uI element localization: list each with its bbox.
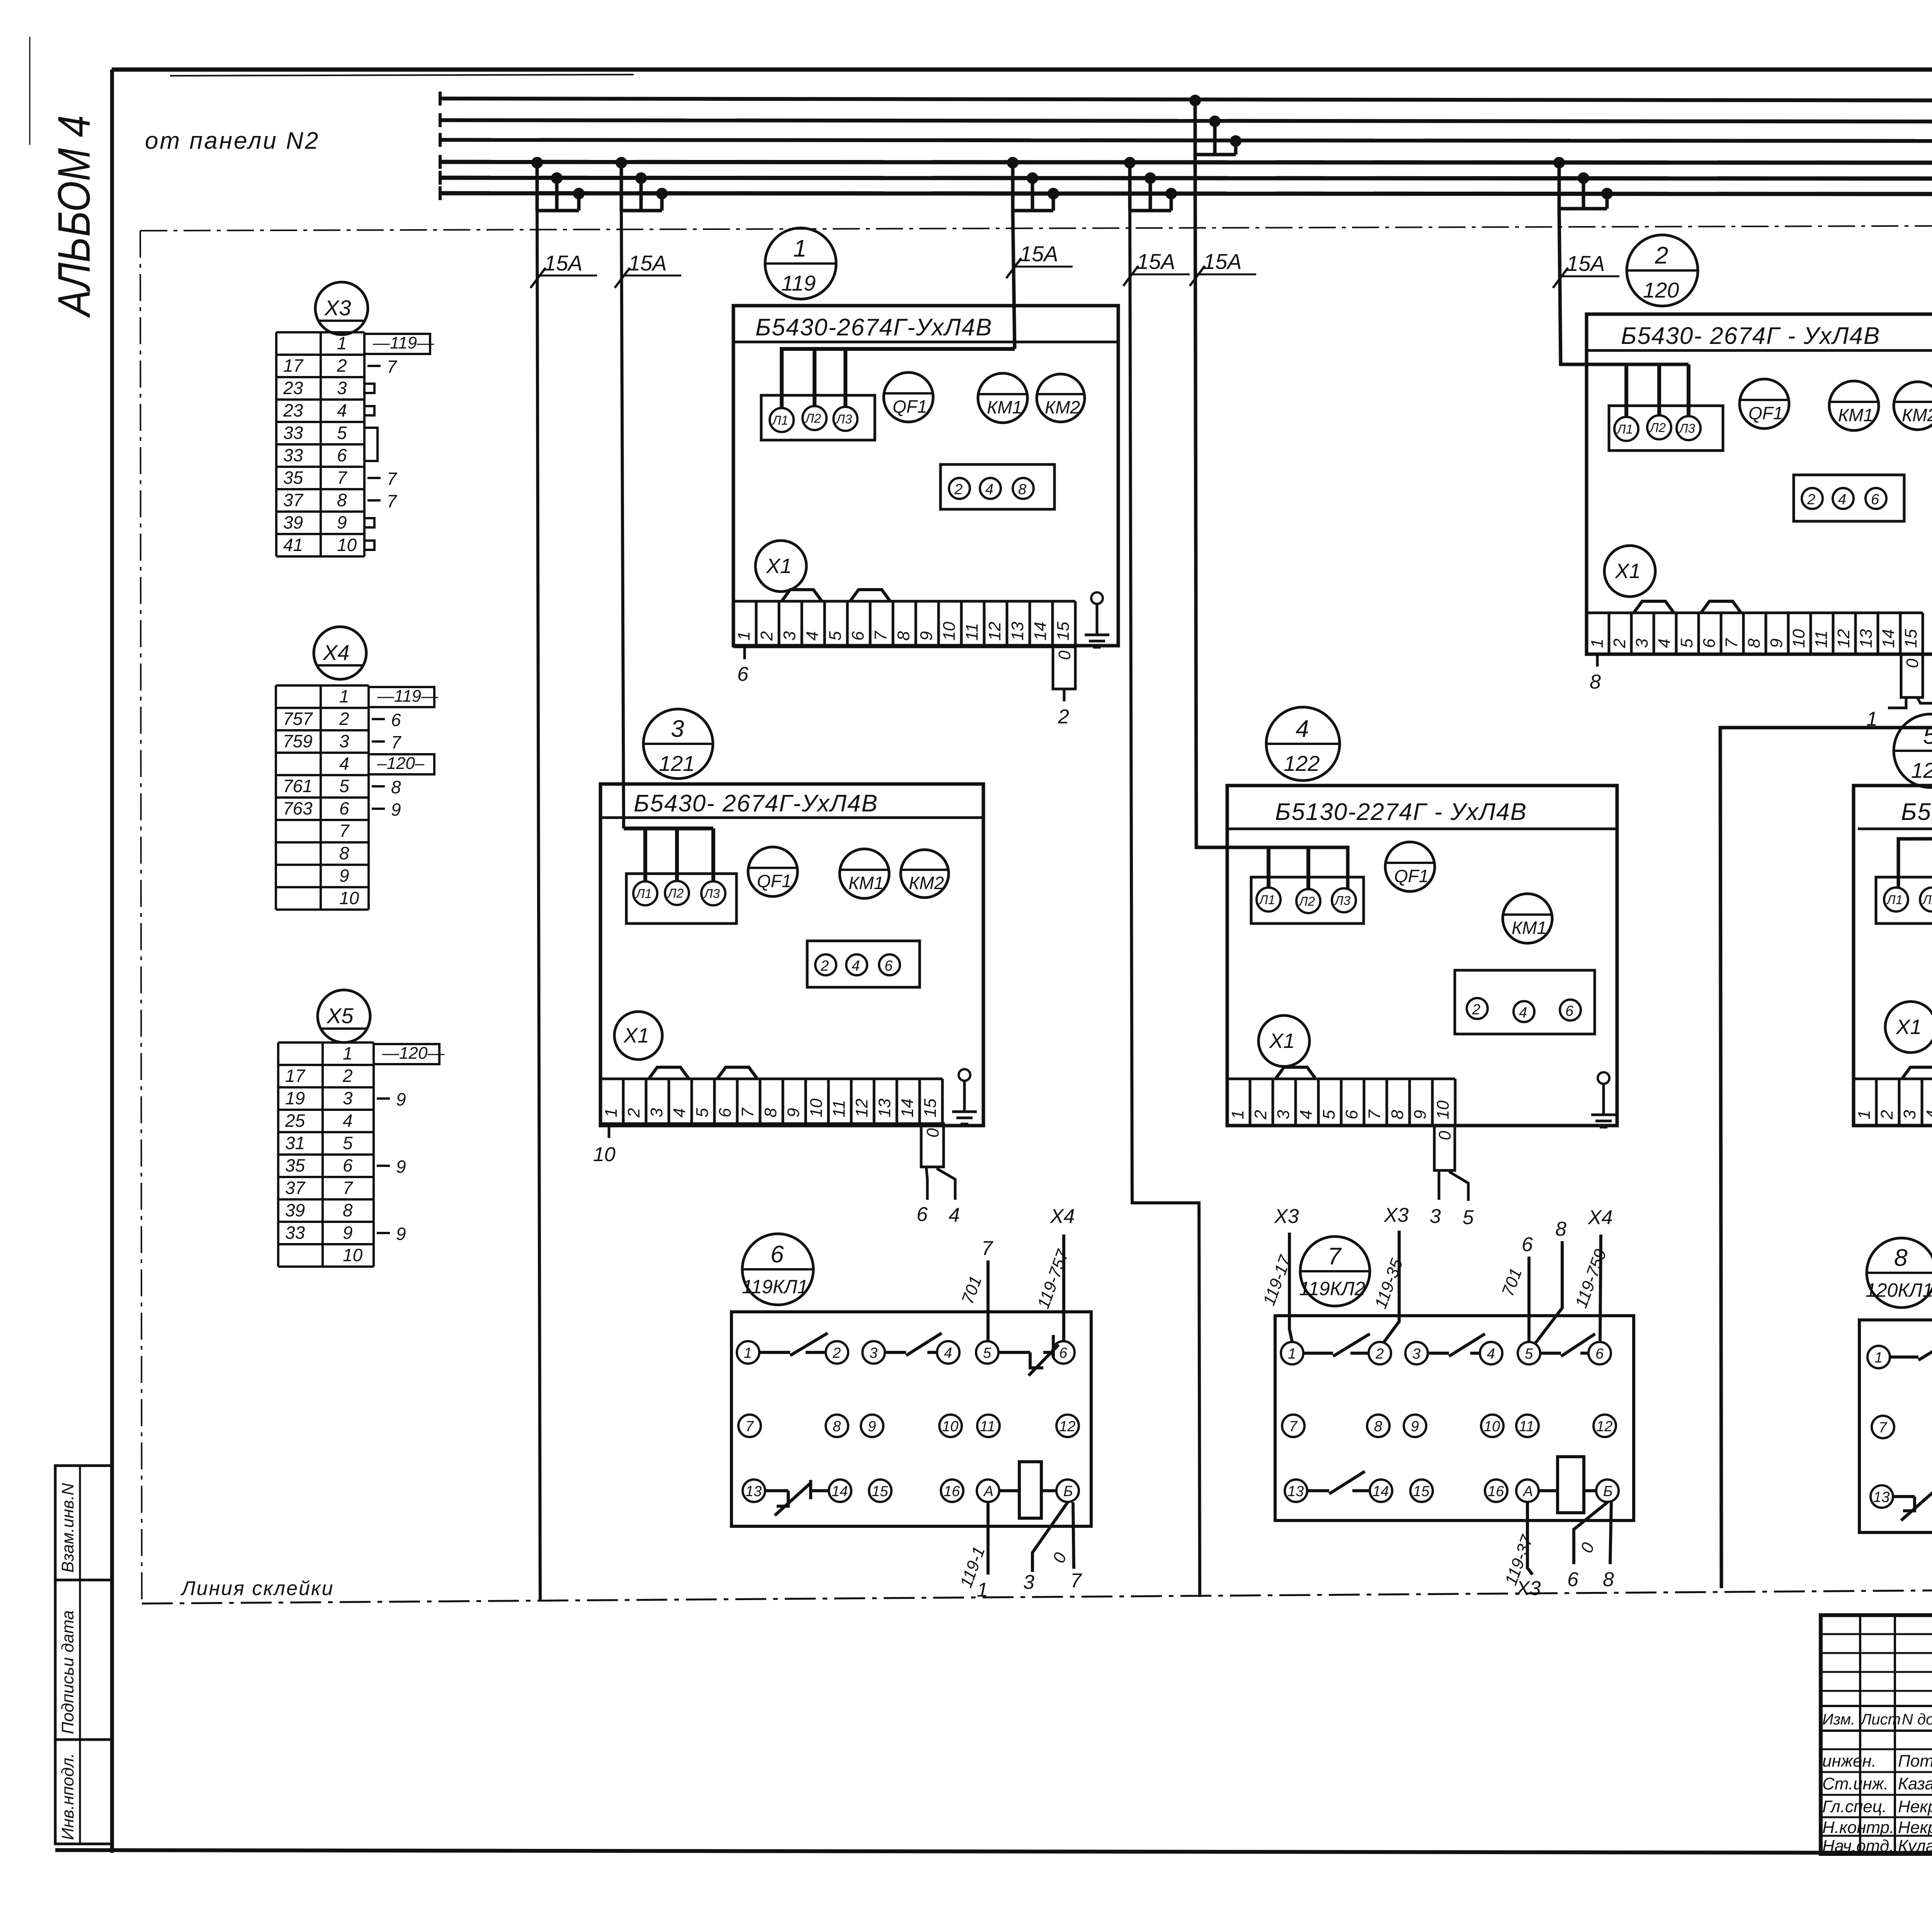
svg-text:4: 4 bbox=[1838, 492, 1846, 508]
svg-text:КМ1: КМ1 bbox=[1838, 405, 1873, 425]
svg-text:X4: X4 bbox=[322, 640, 350, 665]
svg-text:1: 1 bbox=[1855, 1110, 1874, 1119]
relay block K8 body bbox=[1859, 1320, 1932, 1532]
svg-text:10: 10 bbox=[337, 535, 357, 555]
svg-text:X1: X1 bbox=[623, 1024, 649, 1047]
svg-text:7: 7 bbox=[981, 1237, 993, 1260]
svg-text:8: 8 bbox=[1555, 1218, 1566, 1240]
svg-text:Л3: Л3 bbox=[703, 886, 720, 901]
lamp Л1 bbox=[770, 408, 794, 432]
wire 119-37 from pin A bbox=[1527, 1502, 1532, 1575]
svg-text:6: 6 bbox=[917, 1203, 928, 1226]
svg-text:КМ2: КМ2 bbox=[909, 873, 944, 893]
relay pin 6 bbox=[1052, 1341, 1075, 1364]
relay pin 14 bbox=[829, 1480, 851, 1502]
lamp Л3 bbox=[1677, 416, 1701, 440]
frame bottom line bbox=[55, 1850, 1932, 1854]
svg-text:2: 2 bbox=[1472, 1002, 1480, 1018]
svg-text:КМ1: КМ1 bbox=[1512, 918, 1547, 938]
lamp box bbox=[1251, 877, 1364, 923]
ground symbol bbox=[1085, 592, 1109, 647]
svg-text:Л2: Л2 bbox=[1922, 893, 1932, 907]
svg-text:А: А bbox=[1522, 1483, 1533, 1500]
fuse 15A on T3 bbox=[1006, 241, 1073, 278]
lamp Л3 bbox=[1332, 888, 1356, 912]
tap T6 staircase on L4 L5 L6 bbox=[1553, 157, 1613, 209]
svg-text:6: 6 bbox=[391, 710, 401, 730]
wire from tap T7 down left and down to splice line bbox=[1720, 214, 1932, 1588]
svg-text:—119—: —119— bbox=[377, 687, 439, 706]
svg-text:15А: 15А bbox=[628, 251, 667, 275]
svg-text:15: 15 bbox=[872, 1483, 888, 1500]
svg-text:12: 12 bbox=[1834, 629, 1853, 648]
svg-text:4: 4 bbox=[1655, 639, 1674, 648]
relay pin 11 bbox=[1516, 1415, 1539, 1437]
lamp Л1 bbox=[1257, 888, 1281, 912]
svg-text:13: 13 bbox=[1873, 1489, 1889, 1505]
device block A5 body bbox=[1854, 786, 1932, 1126]
svg-text:0: 0 bbox=[1055, 650, 1074, 660]
svg-text:4: 4 bbox=[1519, 1005, 1527, 1021]
contact 5-6 timed bbox=[998, 1335, 1059, 1376]
svg-text:Инв.нподл.: Инв.нподл. bbox=[58, 1753, 77, 1840]
svg-text:8: 8 bbox=[1388, 1110, 1407, 1119]
bus line L4 bbox=[440, 162, 1932, 163]
bus line L3 bbox=[440, 140, 1932, 141]
svg-text:7: 7 bbox=[387, 469, 397, 489]
svg-text:0: 0 bbox=[1435, 1131, 1454, 1140]
svg-text:7: 7 bbox=[337, 468, 347, 488]
svg-text:41: 41 bbox=[283, 535, 303, 555]
svg-text:4: 4 bbox=[337, 400, 347, 420]
svg-text:9: 9 bbox=[1767, 639, 1786, 648]
wire lamp drop A1 L2 bbox=[813, 349, 816, 406]
connector X1 circle bbox=[614, 1012, 662, 1060]
device circle КМ2 bbox=[1037, 374, 1085, 422]
jumper bump bbox=[1902, 1067, 1932, 1079]
tap T4 staircase on L4 L5 L6 bbox=[1124, 157, 1177, 211]
svg-text:0: 0 bbox=[1903, 658, 1922, 668]
svg-text:Л1: Л1 bbox=[1616, 422, 1633, 436]
svg-text:4: 4 bbox=[1297, 1110, 1316, 1119]
svg-text:39: 39 bbox=[285, 1200, 305, 1220]
svg-text:1: 1 bbox=[1288, 1346, 1296, 1362]
svg-text:7: 7 bbox=[343, 1178, 353, 1198]
svg-text:X3: X3 bbox=[1274, 1205, 1299, 1228]
svg-text:2: 2 bbox=[1058, 706, 1069, 728]
bus line L5 bbox=[440, 178, 1932, 179]
sheet outer left scan edge bbox=[29, 37, 31, 145]
svg-text:7: 7 bbox=[1722, 638, 1741, 648]
svg-text:Л1: Л1 bbox=[1886, 893, 1903, 907]
svg-text:4: 4 bbox=[949, 1204, 960, 1226]
svg-text:16: 16 bbox=[1488, 1483, 1504, 1500]
svg-text:QF1: QF1 bbox=[1394, 866, 1429, 886]
svg-text:Нач.отд.: Нач.отд. bbox=[1822, 1837, 1894, 1855]
connector table X3 bbox=[276, 332, 434, 556]
svg-text:от панели N2: от панели N2 bbox=[145, 128, 320, 154]
relay pin 16 bbox=[1485, 1480, 1507, 1502]
svg-text:15А: 15А bbox=[544, 251, 583, 275]
relay pin 8 bbox=[1367, 1415, 1389, 1437]
relay pin 15 bbox=[1410, 1480, 1433, 1502]
svg-text:15А: 15А bbox=[1020, 241, 1058, 266]
svg-text:9: 9 bbox=[396, 1224, 406, 1244]
wire 701 to pin5 bbox=[1527, 1257, 1531, 1342]
svg-text:6: 6 bbox=[884, 958, 893, 974]
svg-text:2: 2 bbox=[339, 709, 349, 729]
jumper bump bbox=[1276, 1067, 1316, 1079]
svg-text:Некрасов: Некрасов bbox=[1898, 1818, 1932, 1837]
terminal 2 bbox=[815, 954, 836, 975]
svg-text:15: 15 bbox=[921, 1099, 940, 1117]
device block A4 body bbox=[1227, 786, 1617, 1126]
even-terminal box bbox=[807, 941, 920, 987]
fuse 15A on T2 bbox=[615, 251, 681, 288]
fuse 15A on T1 bbox=[531, 251, 597, 288]
wire lamp drop A3 L1 bbox=[643, 828, 647, 881]
svg-text:122: 122 bbox=[1284, 751, 1320, 776]
relay pin 1 bbox=[737, 1341, 759, 1364]
relay pin 5 bbox=[1518, 1342, 1540, 1364]
wire from pin B diagonal to 6 bbox=[1574, 1502, 1607, 1564]
terminal 4 bbox=[980, 478, 1001, 499]
svg-text:757: 757 bbox=[283, 709, 313, 729]
fuse 15A on T5 bbox=[1190, 249, 1256, 286]
svg-text:Л3: Л3 bbox=[1679, 421, 1696, 435]
svg-text:QF1: QF1 bbox=[757, 871, 791, 891]
wire lamp bus A1 bbox=[782, 349, 1015, 408]
svg-text:—119—: —119— bbox=[372, 333, 434, 352]
svg-text:Л3: Л3 bbox=[1334, 893, 1351, 908]
contact 1-2 bbox=[1890, 1338, 1932, 1360]
wire from tap T2 down into block 3 bbox=[621, 211, 624, 828]
terminal 0 box bbox=[1901, 654, 1923, 697]
terminal strip X1 pins 1-15 bbox=[733, 590, 1075, 647]
svg-text:Казакова: Казакова bbox=[1898, 1774, 1932, 1793]
svg-text:Линия склейки: Линия склейки bbox=[180, 1577, 334, 1600]
connector table X5 bbox=[278, 1043, 445, 1267]
terminal 8 bbox=[1013, 478, 1034, 499]
svg-text:X3: X3 bbox=[1516, 1577, 1541, 1600]
svg-text:39: 39 bbox=[283, 512, 303, 532]
relay pin 1 bbox=[1281, 1342, 1303, 1364]
designator circle 8/120КЛ1 bbox=[1866, 1238, 1932, 1308]
svg-text:8: 8 bbox=[1374, 1418, 1382, 1435]
svg-text:37: 37 bbox=[285, 1178, 306, 1198]
relay block K6 body bbox=[731, 1312, 1091, 1526]
wire from tap T5 down into block 4 bbox=[1195, 155, 1348, 889]
title block left grid horizontals bbox=[1821, 1633, 1932, 1635]
hook wire to 5 bbox=[1449, 1172, 1468, 1201]
wire lamp drop A4 L2 bbox=[1306, 847, 1310, 889]
relay pin 13 bbox=[1285, 1480, 1307, 1502]
title block outer bbox=[1821, 1615, 1932, 1854]
svg-text:3: 3 bbox=[647, 1108, 666, 1117]
relay pin 5 bbox=[976, 1341, 998, 1364]
svg-text:12: 12 bbox=[1596, 1418, 1612, 1435]
wire from tap T1 down to splice line bbox=[537, 211, 540, 1602]
jumper bump bbox=[1634, 601, 1674, 613]
svg-text:3: 3 bbox=[1412, 1346, 1420, 1362]
svg-text:23: 23 bbox=[283, 400, 303, 420]
svg-text:4: 4 bbox=[1923, 1110, 1932, 1119]
svg-text:2: 2 bbox=[954, 481, 963, 498]
wire lamp drop A2 L2 bbox=[1657, 364, 1661, 415]
lamp Л1 bbox=[1884, 888, 1908, 912]
svg-text:2: 2 bbox=[1807, 492, 1815, 508]
svg-text:–120–: –120– bbox=[377, 754, 425, 773]
svg-text:1: 1 bbox=[735, 631, 753, 641]
svg-text:15: 15 bbox=[1901, 629, 1920, 648]
svg-text:2: 2 bbox=[1610, 639, 1629, 648]
relay pin 9 bbox=[861, 1415, 883, 1437]
svg-text:Л1: Л1 bbox=[635, 886, 652, 901]
device circle КМ2 bbox=[1894, 382, 1932, 430]
panel3 boundary dash-dot top bbox=[140, 224, 1932, 231]
designator circle 4/122 bbox=[1266, 707, 1340, 781]
svg-text:11: 11 bbox=[963, 623, 981, 641]
svg-text:6: 6 bbox=[339, 798, 349, 818]
svg-text:9: 9 bbox=[396, 1156, 406, 1177]
relay pin 7 bbox=[1282, 1415, 1304, 1437]
svg-text:X1: X1 bbox=[1614, 560, 1641, 583]
lamp Л1 bbox=[633, 881, 657, 905]
svg-text:QF1: QF1 bbox=[893, 396, 927, 417]
svg-text:Б5130-2274Г- УхЛ4В: Б5130-2274Г- УхЛ4В bbox=[1901, 799, 1932, 825]
terminal 2 bbox=[949, 478, 970, 499]
svg-text:25: 25 bbox=[285, 1111, 305, 1131]
designator circle 1/119 bbox=[765, 228, 836, 299]
lamp box bbox=[1609, 406, 1723, 451]
svg-text:0: 0 bbox=[923, 1128, 942, 1138]
svg-text:11: 11 bbox=[980, 1418, 995, 1435]
svg-text:8: 8 bbox=[343, 1200, 353, 1220]
svg-text:5: 5 bbox=[983, 1345, 992, 1361]
svg-text:8: 8 bbox=[337, 490, 347, 510]
svg-text:4: 4 bbox=[670, 1108, 689, 1117]
lamp Л2 bbox=[665, 881, 689, 905]
svg-text:6: 6 bbox=[1522, 1233, 1533, 1256]
lamp Л3 bbox=[701, 881, 725, 905]
hook wire to 5 bbox=[1917, 697, 1932, 703]
device circle QF1 bbox=[1740, 379, 1789, 429]
lamp Л2 bbox=[1920, 888, 1932, 912]
wire 119-35 to pin2 bbox=[1384, 1231, 1399, 1342]
svg-text:121: 121 bbox=[659, 751, 695, 776]
svg-text:37: 37 bbox=[283, 490, 304, 510]
lamp Л1 bbox=[1614, 417, 1638, 441]
wire 119-1 from pin A bbox=[986, 1502, 990, 1575]
svg-text:10: 10 bbox=[1789, 629, 1808, 648]
svg-text:Некрасов: Некрасов bbox=[1898, 1797, 1932, 1816]
svg-text:4: 4 bbox=[944, 1345, 952, 1361]
svg-text:1: 1 bbox=[337, 333, 347, 353]
device circle КМ1 bbox=[840, 849, 889, 898]
svg-text:1: 1 bbox=[343, 1043, 353, 1063]
wire 8 diagonal to pin5 bbox=[1535, 1241, 1562, 1344]
contact 3-4 bbox=[1428, 1334, 1485, 1356]
bus line L1 bbox=[440, 99, 1932, 101]
svg-text:13: 13 bbox=[1008, 622, 1027, 641]
svg-text:А: А bbox=[983, 1483, 993, 1500]
svg-text:1: 1 bbox=[1228, 1110, 1247, 1119]
svg-text:9: 9 bbox=[868, 1418, 876, 1435]
svg-text:Л2: Л2 bbox=[1649, 420, 1666, 435]
svg-text:15А: 15А bbox=[1137, 249, 1175, 274]
svg-text:6: 6 bbox=[1595, 1346, 1604, 1362]
lamp box bbox=[761, 395, 875, 440]
svg-text:Б5430-2674Г-УхЛ4В: Б5430-2674Г-УхЛ4В bbox=[755, 314, 993, 341]
svg-text:14: 14 bbox=[1372, 1483, 1389, 1500]
svg-text:1: 1 bbox=[977, 1579, 988, 1601]
connector X1 circle bbox=[1259, 1015, 1310, 1066]
svg-text:23: 23 bbox=[283, 378, 303, 398]
relay pin 1 bbox=[1867, 1346, 1890, 1368]
svg-text:КМ1: КМ1 bbox=[987, 397, 1022, 417]
jumper bump bbox=[782, 590, 822, 601]
svg-text:8: 8 bbox=[1745, 638, 1764, 648]
relay pin А bbox=[977, 1480, 999, 1502]
svg-text:8: 8 bbox=[894, 631, 913, 641]
device block A3 body bbox=[600, 784, 983, 1126]
svg-text:14: 14 bbox=[1031, 622, 1050, 641]
tap T5 staircase on L1 L2 L3 bbox=[1189, 95, 1242, 155]
svg-text:8: 8 bbox=[761, 1108, 780, 1117]
svg-text:16: 16 bbox=[944, 1483, 960, 1500]
relay pin 9 bbox=[1404, 1415, 1426, 1437]
svg-text:Взам.инв.N: Взам.инв.N bbox=[58, 1483, 77, 1573]
even-terminal box bbox=[1455, 970, 1595, 1034]
svg-text:7: 7 bbox=[1289, 1418, 1298, 1435]
svg-text:X4: X4 bbox=[1588, 1206, 1613, 1229]
svg-text:3: 3 bbox=[1900, 1110, 1919, 1119]
contact 5-6 bbox=[1540, 1334, 1595, 1356]
svg-text:1: 1 bbox=[602, 1108, 621, 1117]
contact 13-14 timed bbox=[1893, 1486, 1932, 1520]
svg-text:Подписьи дата: Подписьи дата bbox=[58, 1610, 77, 1734]
svg-text:X3: X3 bbox=[324, 296, 351, 320]
frame top line bbox=[112, 68, 1932, 72]
jumper bump bbox=[1701, 601, 1741, 613]
svg-text:11: 11 bbox=[1519, 1418, 1534, 1435]
wire lamp drop A2 L1 bbox=[1624, 364, 1628, 417]
connector table X4 bbox=[276, 685, 439, 910]
wire from pin B diagonal to 3 bbox=[1032, 1502, 1068, 1572]
svg-text:14: 14 bbox=[832, 1483, 848, 1500]
svg-text:8: 8 bbox=[1894, 1245, 1908, 1271]
svg-text:7: 7 bbox=[1879, 1420, 1888, 1436]
svg-text:2: 2 bbox=[832, 1345, 841, 1361]
wire from pin B straight to 7 bbox=[1073, 1502, 1074, 1569]
designator circle 5/123 bbox=[1894, 714, 1932, 787]
svg-text:2: 2 bbox=[757, 631, 776, 641]
svg-text:11: 11 bbox=[830, 1100, 849, 1117]
svg-text:11: 11 bbox=[1812, 630, 1831, 648]
glue line dash-dot bottom bbox=[142, 1585, 1932, 1604]
svg-text:4: 4 bbox=[339, 753, 349, 774]
svg-text:7: 7 bbox=[1070, 1570, 1082, 1592]
lamp Л2 bbox=[803, 406, 827, 430]
svg-text:6: 6 bbox=[1565, 1003, 1574, 1019]
svg-text:8: 8 bbox=[833, 1418, 841, 1435]
leader wire pin15-0 to 2 bbox=[1063, 689, 1066, 701]
leader wire pin1 to 8 bbox=[1596, 654, 1599, 667]
title block left grid verticals bbox=[1859, 1615, 1861, 1854]
terminal 4 bbox=[1833, 488, 1854, 509]
frame top inner double line bbox=[170, 75, 634, 76]
device block A1 body bbox=[733, 306, 1118, 646]
device circle КМ1 bbox=[1829, 381, 1879, 430]
device block A2 body bbox=[1587, 314, 1932, 654]
connector X5 designator circle bbox=[318, 990, 370, 1043]
relay pin 4 bbox=[937, 1341, 959, 1364]
svg-text:7: 7 bbox=[387, 491, 397, 511]
relay pin 15 bbox=[869, 1480, 891, 1502]
tap T3 staircase on L4 L5 L6 bbox=[1007, 157, 1059, 211]
svg-text:15А: 15А bbox=[1566, 251, 1605, 276]
svg-text:13: 13 bbox=[875, 1099, 894, 1117]
svg-text:761: 761 bbox=[283, 776, 313, 796]
svg-text:2: 2 bbox=[1655, 242, 1668, 269]
connector X3 designator circle bbox=[315, 282, 368, 335]
relay pin 4 bbox=[1480, 1342, 1502, 1364]
svg-text:8: 8 bbox=[1018, 481, 1026, 498]
bus line L2 bbox=[440, 120, 1932, 122]
svg-text:Ст.инж.: Ст.инж. bbox=[1822, 1774, 1888, 1793]
svg-text:9: 9 bbox=[396, 1089, 406, 1109]
svg-text:2: 2 bbox=[337, 355, 347, 376]
svg-text:X1: X1 bbox=[1269, 1029, 1295, 1053]
svg-text:Л2: Л2 bbox=[667, 886, 684, 900]
svg-text:12: 12 bbox=[1059, 1418, 1075, 1435]
svg-text:Б: Б bbox=[1603, 1483, 1613, 1500]
leader wire pin1 to 6 bbox=[743, 647, 746, 659]
contact 3-4 bbox=[885, 1333, 942, 1355]
svg-text:6: 6 bbox=[770, 1241, 784, 1268]
svg-text:10: 10 bbox=[339, 888, 359, 908]
svg-text:4: 4 bbox=[985, 481, 993, 498]
svg-text:1: 1 bbox=[744, 1345, 752, 1361]
svg-text:33: 33 bbox=[283, 445, 303, 465]
lamp Л3 bbox=[833, 407, 857, 431]
svg-text:759: 759 bbox=[283, 731, 313, 751]
terminal 6 bbox=[1560, 1000, 1581, 1020]
svg-text:2: 2 bbox=[342, 1066, 353, 1086]
svg-text:3: 3 bbox=[343, 1088, 353, 1108]
fuse 15A on T4 bbox=[1123, 249, 1190, 286]
svg-text:2: 2 bbox=[624, 1108, 643, 1118]
svg-text:4: 4 bbox=[343, 1111, 353, 1131]
terminal strip X1 pins 1-15 bbox=[1587, 601, 1923, 654]
svg-text:17: 17 bbox=[283, 355, 304, 376]
designator circle 7/119КЛ2 bbox=[1299, 1236, 1370, 1306]
svg-text:10: 10 bbox=[942, 1418, 958, 1435]
wire from pin B straight to 8 bbox=[1610, 1502, 1611, 1564]
svg-text:5: 5 bbox=[1320, 1110, 1338, 1119]
svg-text:120: 120 bbox=[1643, 278, 1679, 302]
svg-text:Л2: Л2 bbox=[1298, 894, 1315, 908]
svg-text:Б5430- 2674Г-УхЛ4В: Б5430- 2674Г-УхЛ4В bbox=[634, 790, 878, 817]
svg-text:1: 1 bbox=[793, 235, 806, 262]
terminal 0 box bbox=[1053, 647, 1075, 689]
wire block5 feed from right splice line bbox=[1898, 837, 1932, 888]
contact 13-14 timed bbox=[765, 1480, 828, 1515]
terminal 4 bbox=[1514, 1001, 1534, 1022]
frame left line bbox=[110, 70, 114, 1853]
svg-text:8: 8 bbox=[1590, 671, 1601, 693]
svg-text:N докум.: N докум. bbox=[1902, 1711, 1932, 1728]
